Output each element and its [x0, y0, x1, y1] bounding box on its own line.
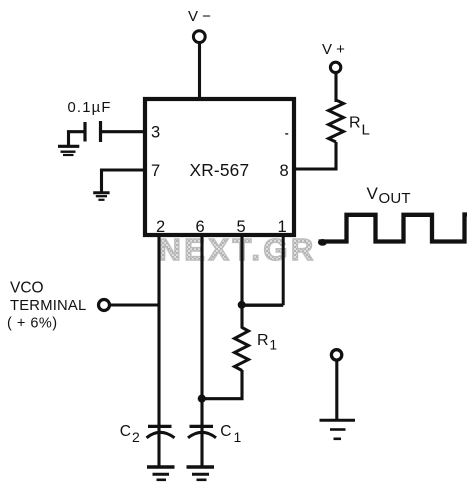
svg-text:3: 3 — [151, 124, 160, 142]
terminal V- — [193, 31, 205, 43]
svg-text:V: V — [367, 184, 379, 203]
svg-text:OUT: OUT — [379, 190, 411, 207]
svg-text:R: R — [349, 115, 361, 132]
resistor RL — [329, 100, 344, 142]
wire cap left to ground — [69, 132, 86, 146]
wire RL to pin 8 — [294, 142, 336, 169]
wire R1 bottom to pin6 junction — [202, 370, 242, 399]
wire pin 1 down — [282, 235, 285, 305]
wire pin 7 to ground — [102, 170, 146, 192]
wire cap to pin 3 — [101, 130, 146, 133]
label VOUT — [367, 184, 411, 207]
wire pin 6 to C1 — [200, 235, 203, 466]
svg-text:1: 1 — [270, 338, 278, 353]
junction node pin5/pin1 — [238, 301, 246, 309]
label RL — [349, 115, 370, 139]
capacitor C2 — [147, 426, 175, 437]
waveform output square wave — [318, 215, 467, 246]
ground (C2) — [147, 467, 175, 480]
svg-text:V +: V + — [322, 41, 345, 58]
svg-text:1: 1 — [234, 429, 242, 445]
svg-text:2: 2 — [132, 429, 140, 445]
wire VCO to pin 2 net — [111, 303, 160, 306]
ground (pin 7) — [93, 193, 109, 200]
svg-text:L: L — [362, 122, 370, 139]
terminal V+ — [330, 62, 340, 72]
junction node pin6/R1 — [198, 395, 206, 403]
ground (bottom right) — [320, 420, 356, 439]
svg-text:1: 1 — [278, 218, 287, 236]
ground (C1) — [187, 467, 215, 480]
label VCO TERMINAL (+6%) — [7, 280, 86, 332]
label C1 — [220, 423, 241, 445]
wire V- to IC top — [198, 43, 201, 99]
wire pin 5 down — [240, 235, 243, 329]
terminal (bottom right) — [331, 350, 341, 360]
capacitor C1 — [188, 426, 216, 437]
svg-text:VCO: VCO — [10, 280, 44, 297]
svg-text:TERMINAL: TERMINAL — [10, 298, 86, 314]
svg-text:( + 6%): ( + 6%) — [7, 316, 58, 332]
svg-text:7: 7 — [151, 162, 160, 180]
resistor R1 — [235, 328, 249, 371]
svg-text:C: C — [120, 423, 131, 440]
svg-text:5: 5 — [237, 218, 246, 236]
label R1 — [257, 332, 277, 353]
label C2 — [120, 423, 140, 445]
svg-text:R: R — [257, 332, 269, 349]
wire V+ to RL — [334, 73, 337, 102]
ground (0.1uF) — [58, 146, 79, 155]
svg-text:V −: V − — [188, 8, 211, 25]
wire junction to pin 1 — [242, 304, 283, 307]
svg-text:NEXT.GR: NEXT.GR — [159, 232, 317, 267]
wire pin 2 to C2 — [157, 235, 160, 466]
terminal VCO — [99, 300, 110, 311]
svg-text:2: 2 — [156, 218, 165, 236]
wire terminal to ground — [335, 362, 338, 421]
capacitor 0.1uF plates — [85, 121, 101, 142]
svg-text:6: 6 — [196, 218, 205, 236]
svg-text:0.1µF: 0.1µF — [68, 100, 112, 116]
IC U1 XR-567 body — [145, 99, 294, 235]
svg-text:XR-567: XR-567 — [190, 160, 250, 180]
svg-text:C: C — [220, 423, 231, 440]
svg-text:8: 8 — [280, 162, 289, 180]
